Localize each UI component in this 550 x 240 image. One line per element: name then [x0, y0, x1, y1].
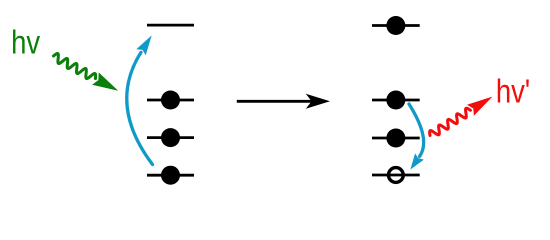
level line L0 (left diagram) — [147, 24, 194, 27]
level line R0 (right diagram) — [372, 24, 420, 27]
relaxation arrow (cyan, right diagram) — [409, 104, 424, 170]
electron dot on level R0 — [386, 16, 405, 35]
svg-text:hv': hv' — [496, 73, 530, 110]
level line L1 (left diagram) — [147, 99, 194, 102]
level line R2 (right diagram) — [372, 137, 420, 140]
excitation arrow (cyan, left diagram) — [127, 35, 153, 164]
electron dot on level R2 — [386, 129, 405, 148]
emitted photon wavy arrow (red) — [430, 97, 493, 136]
level line R1 (right diagram) — [372, 99, 420, 102]
electron dot on level L2 — [161, 128, 180, 147]
label hv (green, incident photon energy) — [11, 24, 41, 61]
electron dot on level L3 — [161, 166, 180, 185]
electron dot on level R1 — [386, 91, 405, 110]
electron dot on level L1 — [161, 91, 180, 110]
svg-text:hv: hv — [11, 24, 41, 61]
level line L3 (left diagram) — [147, 174, 194, 177]
incident photon wavy arrow (green) — [54, 53, 119, 90]
reaction arrow (middle, black) — [237, 94, 330, 109]
label hv' (red, emitted photon energy) — [496, 73, 530, 110]
level line R3 (right diagram) — [372, 174, 420, 177]
hole (open circle) on level R3 — [388, 168, 403, 183]
level line L2 (left diagram) — [147, 136, 194, 139]
